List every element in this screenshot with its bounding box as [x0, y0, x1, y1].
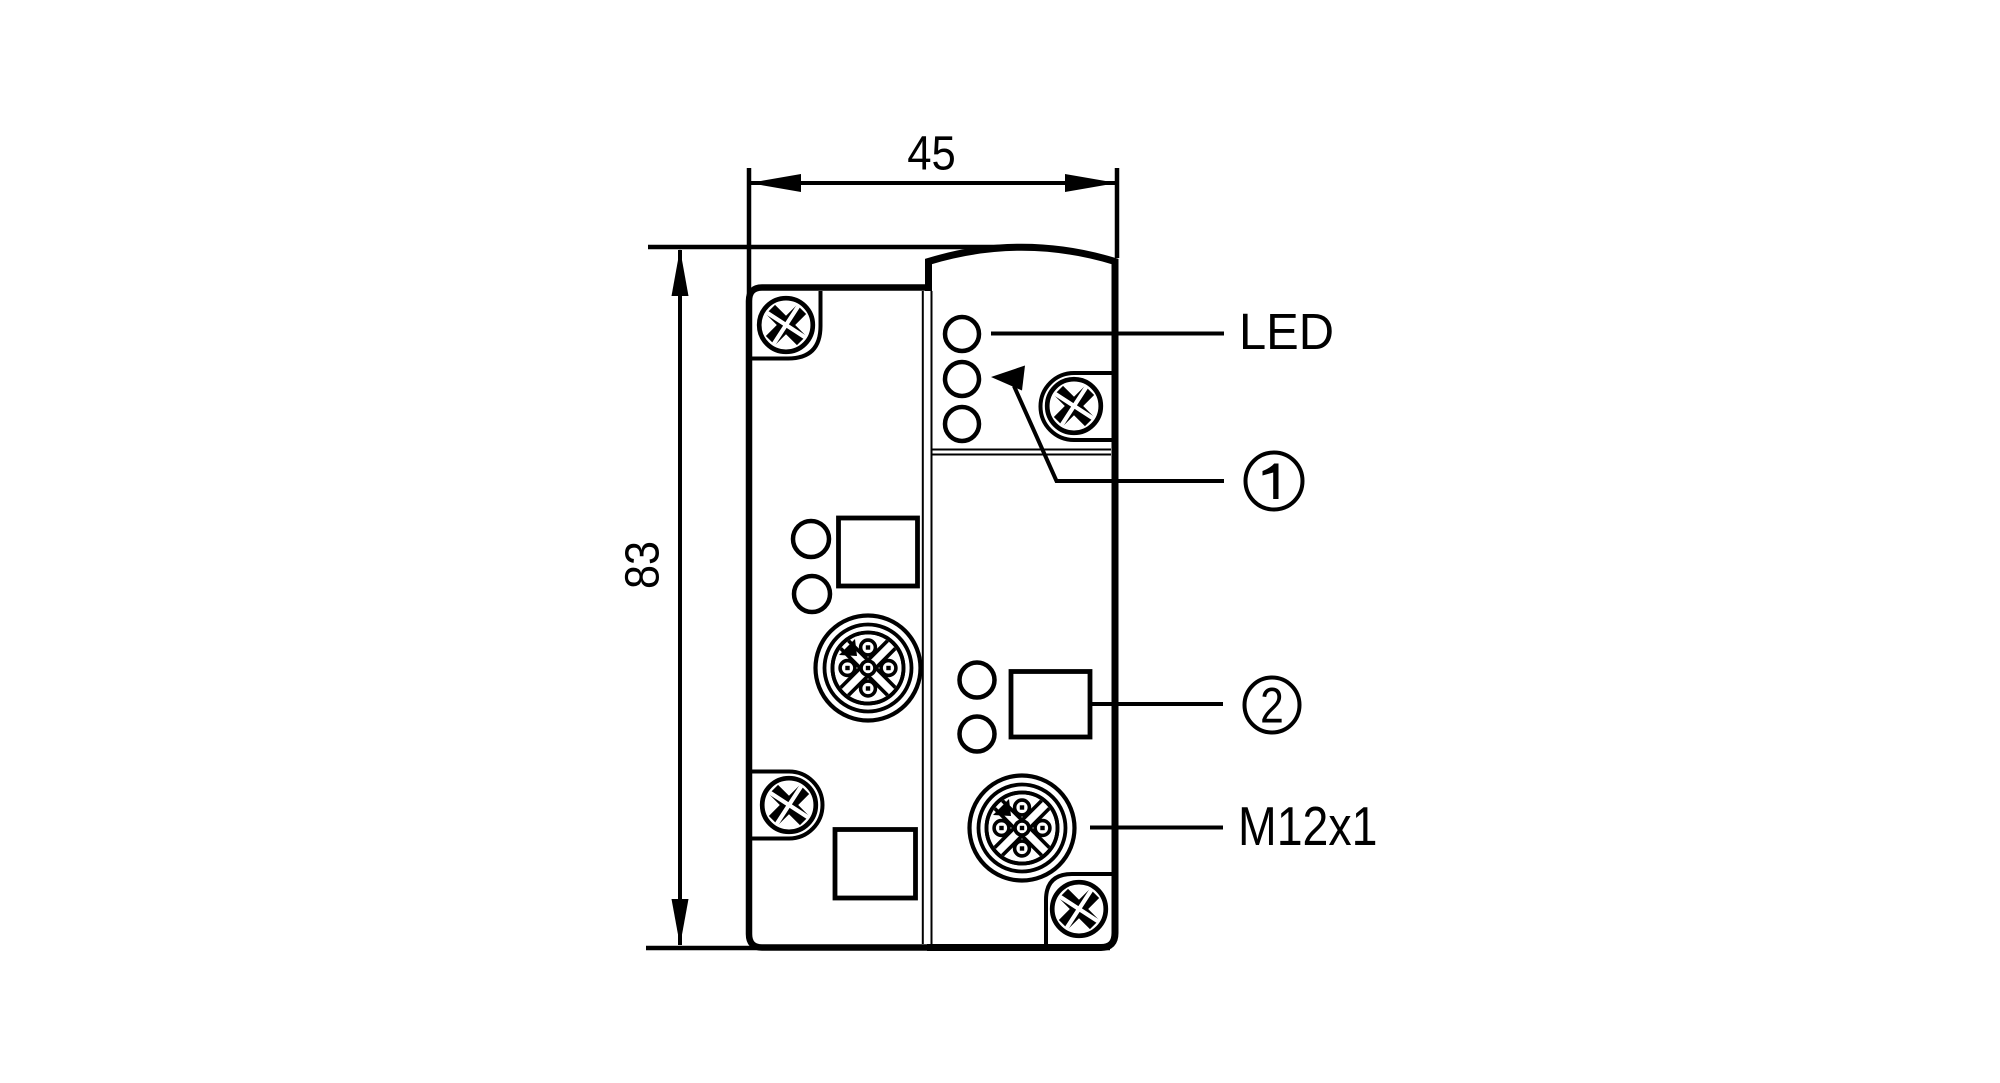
dimension 45 arrow left: [749, 174, 801, 192]
svg-text:45: 45: [907, 126, 956, 180]
M12 connector right: [970, 776, 1075, 881]
housing right raised section outline with top arc: [927, 247, 1115, 947]
LED right top 2: [945, 362, 979, 396]
dimension 45 arrow right: [1065, 174, 1117, 192]
dimension 83 arrow bottom: [672, 899, 689, 946]
dimension 45 extension line right: [1115, 168, 1120, 258]
callout circle 1: [1246, 453, 1303, 510]
LED left lower: [794, 576, 830, 612]
screw top-left: [747, 286, 824, 363]
divider double line between sections: [923, 291, 932, 944]
leader line M12x1: [1090, 826, 1223, 830]
leader line callout 1: [1014, 386, 1224, 481]
svg-text:2: 2: [1260, 677, 1284, 733]
LED right mid 1: [960, 663, 995, 698]
svg-text:M12x1: M12x1: [1238, 795, 1377, 857]
addressing window right: [1011, 672, 1090, 738]
screw pocket bottom-left: [749, 772, 823, 839]
screw bottom-right: [1040, 870, 1117, 947]
LED left upper: [793, 521, 829, 557]
addressing window left lower: [835, 830, 916, 899]
housing left section outline: [749, 288, 931, 948]
screw bottom-left: [750, 766, 827, 843]
addressing window left upper: [839, 518, 918, 586]
svg-text:83: 83: [615, 541, 669, 589]
dimension 83 arrow top: [672, 249, 689, 296]
leader arrowhead callout 1: [991, 366, 1025, 391]
screw pocket top-right: [1041, 373, 1114, 440]
LED right top 3: [945, 407, 979, 441]
callout circle 2: [1245, 678, 1300, 733]
screw pocket bottom-right: [1046, 874, 1113, 944]
screw pocket top-left: [749, 291, 821, 359]
dimension 83 line: [678, 250, 682, 945]
LED right top 1: [945, 317, 979, 351]
leader line callout 2: [1090, 702, 1223, 706]
M12 connector left: [816, 616, 921, 721]
separator double line right section: [932, 450, 1111, 455]
dimension 45 extension line left: [747, 168, 752, 300]
dimension 45 line: [749, 181, 1117, 185]
LED right mid 2: [960, 717, 995, 752]
svg-text:LED: LED: [1239, 303, 1334, 360]
screw top-right: [1035, 367, 1112, 444]
leader line LED: [991, 332, 1224, 336]
dimension 83 extension line bottom: [646, 946, 1110, 951]
dimension 83 extension line top: [648, 245, 1016, 250]
